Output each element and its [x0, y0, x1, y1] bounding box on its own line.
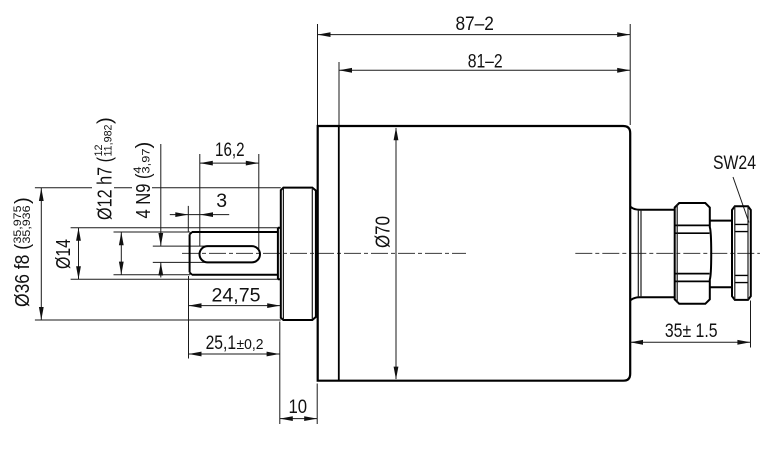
svg-text:): ): [11, 197, 34, 204]
svg-text:25,1: 25,1: [206, 332, 237, 354]
svg-text:24,75: 24,75: [211, 284, 260, 306]
svg-text:Ø36 f8 (: Ø36 f8 (: [11, 244, 34, 307]
svg-text:10: 10: [288, 396, 307, 418]
svg-text:87–2: 87–2: [455, 13, 494, 35]
svg-text:35,936: 35,936: [21, 205, 33, 243]
svg-text:3: 3: [216, 190, 227, 212]
svg-text:Ø14: Ø14: [52, 239, 75, 269]
svg-text:81–2: 81–2: [468, 51, 503, 73]
svg-text:±0,2: ±0,2: [236, 337, 263, 353]
svg-text:): ): [94, 117, 117, 124]
svg-text:3,97: 3,97: [141, 148, 153, 173]
svg-text:): ): [132, 142, 155, 149]
svg-text:35± 1.5: 35± 1.5: [665, 320, 718, 342]
svg-text:SW24: SW24: [713, 152, 756, 174]
svg-text:11,982: 11,982: [103, 124, 115, 156]
svg-text:4 N9 (: 4 N9 (: [132, 173, 155, 218]
svg-text:Ø12 h7 (: Ø12 h7 (: [94, 157, 117, 220]
svg-text:Ø70: Ø70: [371, 216, 394, 248]
svg-text:16,2: 16,2: [215, 139, 245, 161]
